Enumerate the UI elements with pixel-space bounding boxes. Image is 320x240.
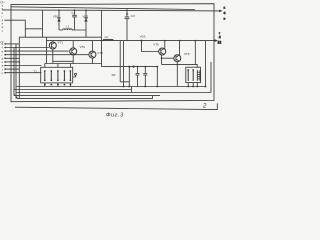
wire bottom bus 2 [14,89,132,91]
wire L1 right end down [85,30,87,37]
svg-text:б: б [3,2,5,4]
diode VD2 [85,10,87,30]
terminal hook right of T1 [73,75,76,77]
svg-text:в: в [2,50,4,53]
transistor VT5 [159,48,166,55]
svg-text:VT3: VT3 [97,51,103,55]
wire branch to x42.5 [25,28,42,30]
wire output line to top-right arrow [2,10,220,11]
wire box2 verticals [128,67,130,87]
svg-text:б: б [2,46,4,50]
wire emitter bus [45,63,102,65]
svg-text:з: з [2,68,4,71]
svg-text:VT5: VT5 [153,43,159,47]
svg-text:VT6: VT6 [184,52,190,56]
wire long vertical x101.5 [101,10,103,66]
transistor VT3 [89,51,96,58]
resistor R2 vertical pair [119,41,121,82]
capacitor C4 stub [137,67,139,74]
svg-text:VT2: VT2 [80,45,86,49]
svg-text:R2: R2 [112,73,116,77]
transistor VT6 [174,55,181,62]
wire bottom bus 4 [14,95,160,97]
svg-text:Т1: Т1 [33,70,37,74]
terminal pins left top group [2,5,4,33]
wire return vertical right [210,62,212,93]
capacitor C3 [126,10,128,17]
terminal pins left middle group [2,43,4,75]
wire VT6 base [162,57,174,59]
svg-text:С3: С3 [131,14,135,18]
wire emitter jog [53,60,73,62]
wire bottom bus 5 [17,98,153,100]
svg-text:з: з [2,30,4,33]
svg-text:VD2: VD2 [83,14,89,18]
outer boundary bottom line [15,103,217,109]
svg-text:д: д [219,36,221,39]
svg-text:г: г [2,15,3,18]
wire box3 taps to bus [187,83,189,87]
wire vertical feed x42.5 [42,10,44,37]
wire bottom bus 1 [16,86,206,88]
winding ladder box3 [197,70,200,81]
svg-text:г: г [2,54,3,57]
wire box3 feeds [194,41,196,65]
wire middle pin rows [4,43,19,45]
svg-text:VD3: VD3 [140,35,146,39]
svg-text:д: д [2,19,4,22]
wire rail A feed x46.5 [46,37,48,63]
wire VT5 base from VD3 node [142,41,159,52]
transformer T1 box [41,67,73,83]
svg-text:б: б [2,7,4,11]
svg-text:L1: L1 [66,24,70,28]
wire emitter return to box3 [162,64,198,67]
wire top rail [11,7,195,10]
svg-text:и: и [2,72,4,75]
svg-text:VT1: VT1 [58,41,64,45]
svg-text:д: д [2,58,4,61]
node dots rail top [58,9,60,11]
node dots on collector bus [128,66,130,68]
diode VD1 [58,10,60,30]
transistor VT1 [49,42,56,49]
arrowhead top right [219,10,222,13]
svg-text:VD1: VD1 [53,15,59,19]
transistor VT2 [70,48,77,55]
wire bus left hooks [13,94,15,96]
node dots bottom bus [123,86,125,88]
svg-text:ж: ж [2,65,4,68]
wire bus riser x152.5 [152,96,154,99]
svg-text:Фиг.3: Фиг.3 [106,113,124,119]
wire bus riser x131.5 [131,87,133,93]
svg-text:12: 12 [218,40,222,44]
box3 [186,67,201,82]
wire T1 taps to bus [44,83,46,87]
capacitor C5 stub [144,67,146,74]
node dots T1 below box [44,84,71,86]
capacitor C1 [74,10,76,15]
wire left bus verticals [13,48,15,96]
svg-text:2: 2 [202,103,207,109]
svg-text:ж: ж [2,26,4,29]
node dots left bus [15,47,17,49]
svg-text:г: г [219,32,220,35]
wire rail A [19,37,101,98]
wire bottom bus 3 [16,92,211,94]
svg-text:в: в [224,17,226,21]
node dots rail B [101,40,103,42]
wire collector bus right section [102,66,158,68]
inductor L2 [103,39,113,40]
svg-text:С1: С1 [72,11,76,15]
wire stepped from pin d [4,20,25,37]
winding bars T1 [45,71,71,80]
winding bars box3 [187,70,189,81]
svg-text:е: е [2,61,4,64]
svg-text:в: в [2,12,4,15]
inductor L1 [59,29,86,30]
wire feeds into box T1 [44,64,46,68]
svg-text:б: б [224,11,226,15]
svg-text:L2: L2 [105,35,109,39]
svg-text:а: а [2,5,4,8]
node terminal dots middle pins [4,43,6,73]
arrowhead right middle [215,39,218,42]
svg-text:к: к [224,6,226,10]
svg-text:е: е [2,23,4,26]
wire rail B to right arrow [46,40,215,42]
